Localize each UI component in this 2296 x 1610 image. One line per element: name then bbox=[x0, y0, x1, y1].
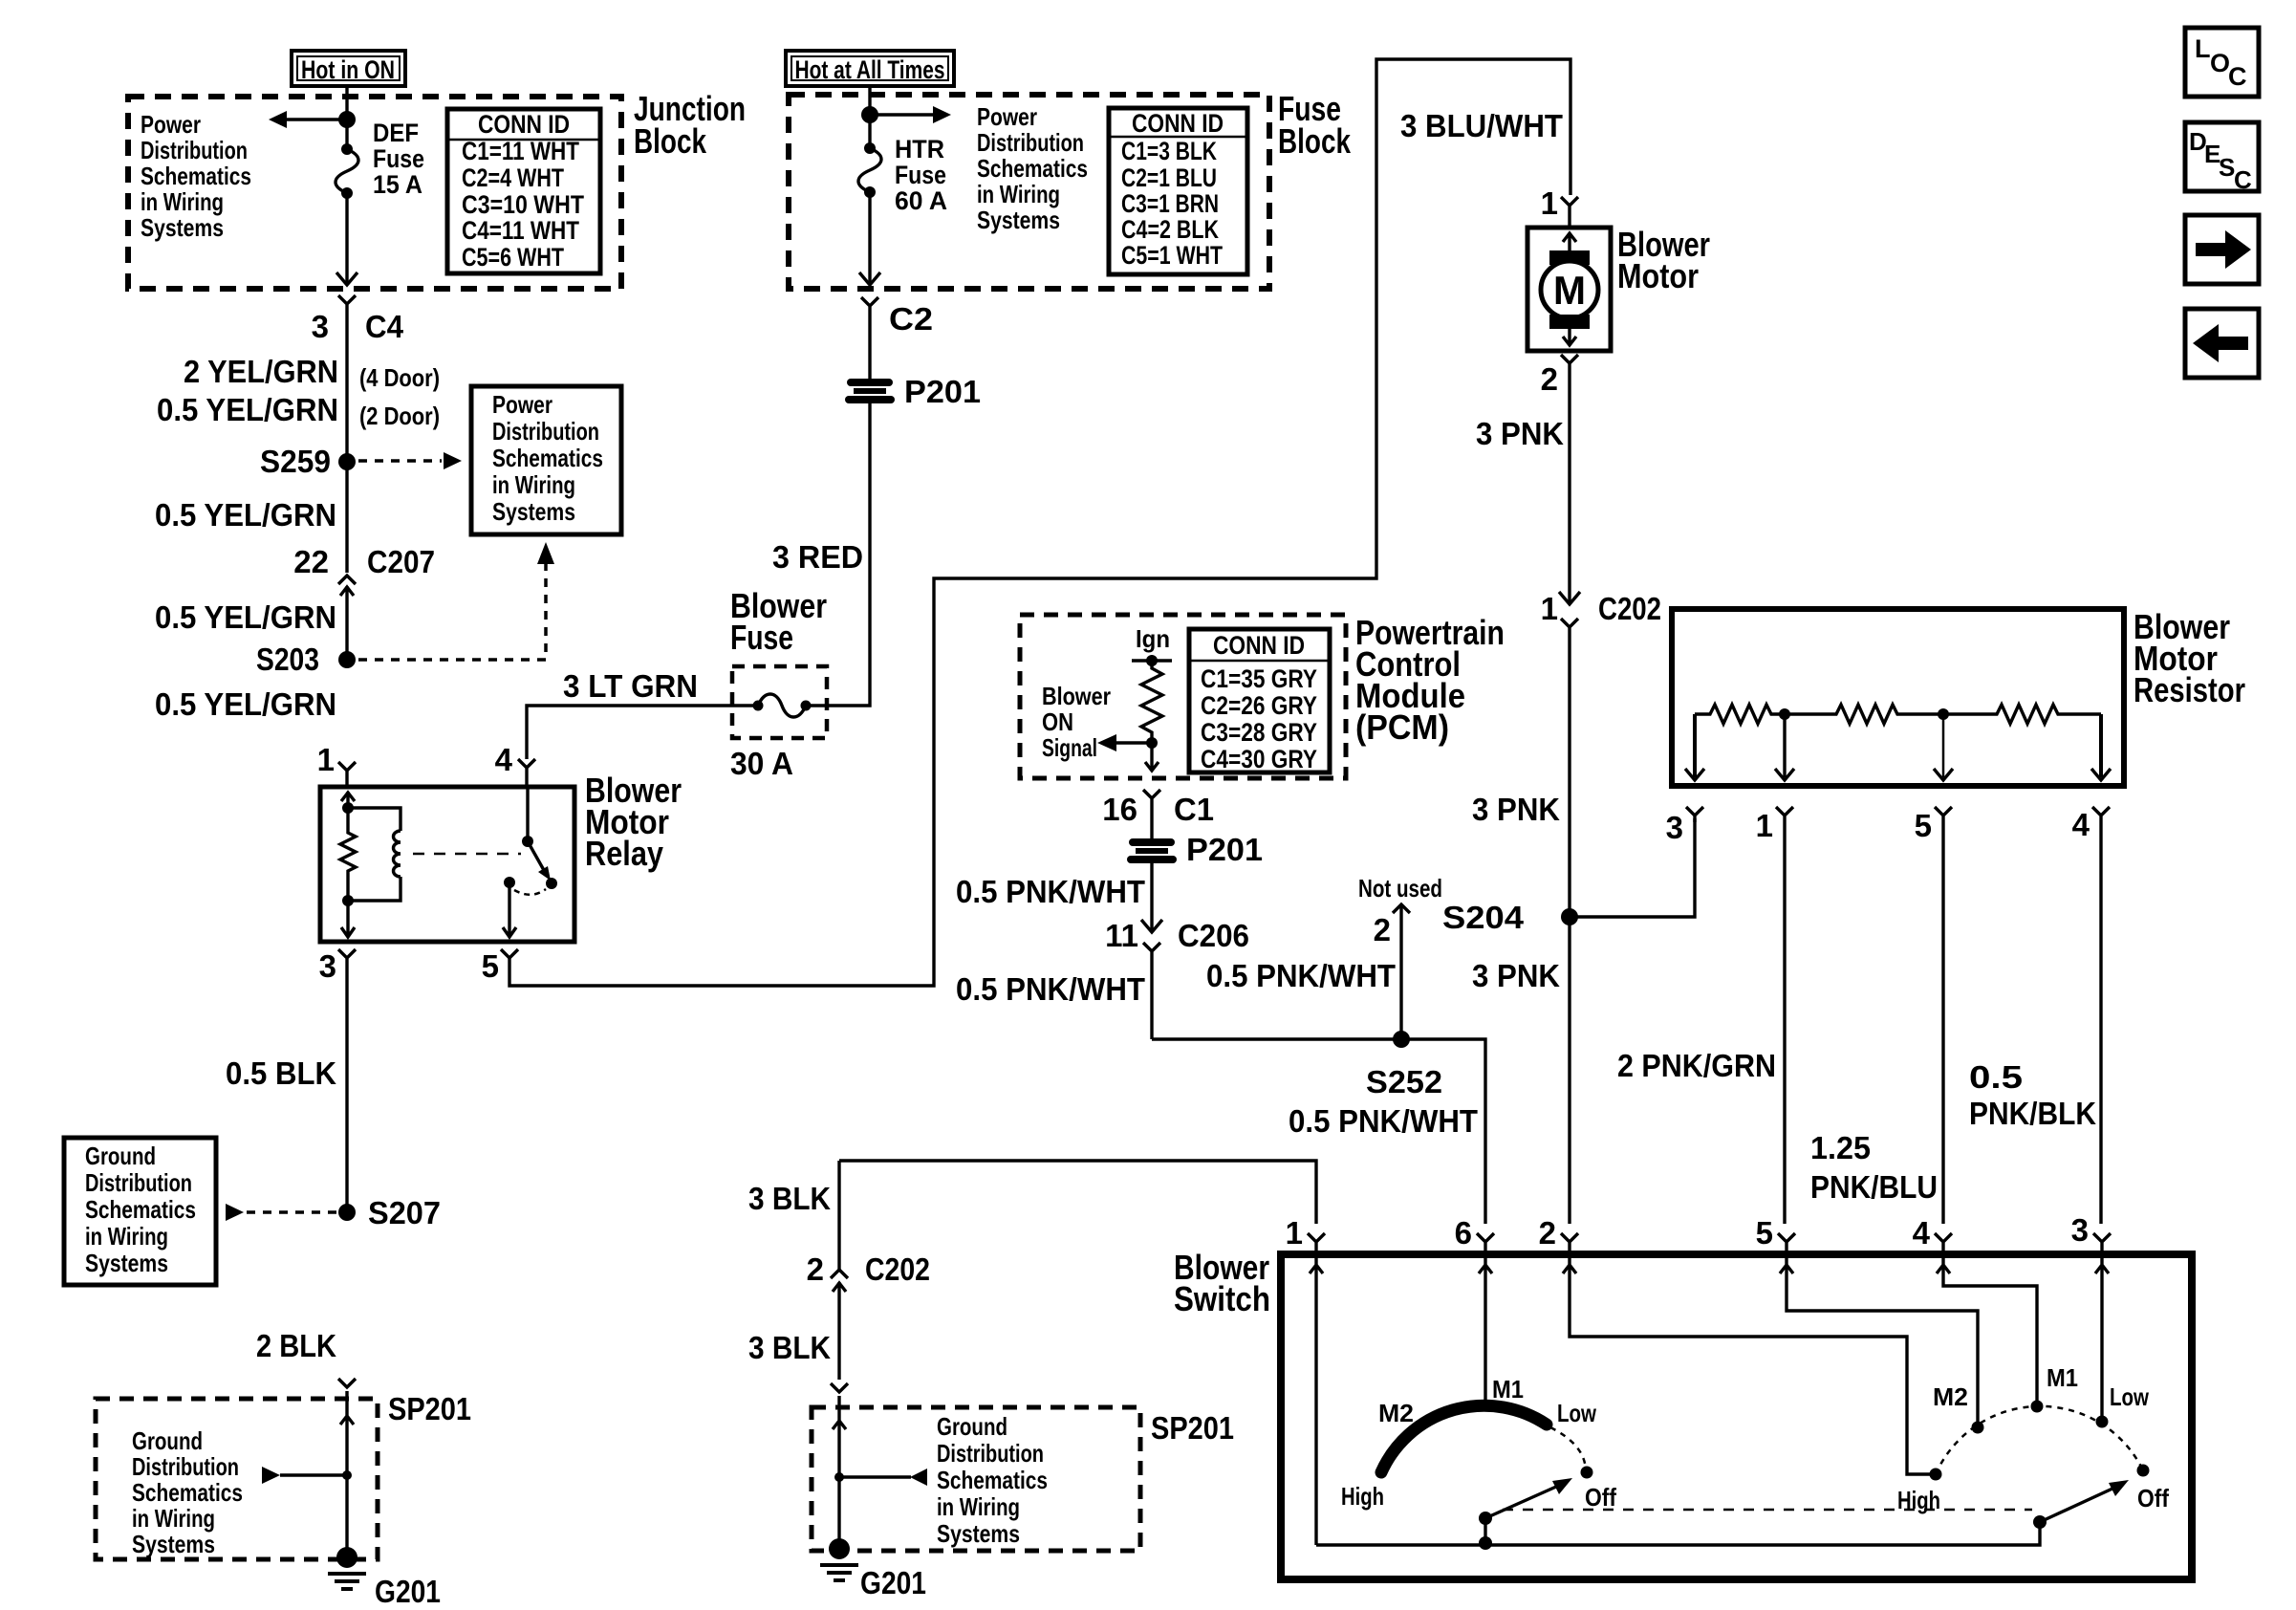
node junction block tap bbox=[338, 111, 356, 128]
inductor relay coil bbox=[348, 808, 401, 901]
wire tap arrow to power distribution note bbox=[269, 111, 339, 128]
wire relay pin 5 internal with arrow bbox=[503, 882, 516, 937]
svg-text:3: 3 bbox=[2071, 1212, 2089, 1248]
connector C4 pin 3 bbox=[312, 295, 404, 462]
resistor R3 pin5-pin4 bbox=[1943, 705, 2101, 724]
wire blower fuse to 3 RED riser bbox=[806, 401, 870, 706]
label 3 PNK S204 to switch bbox=[1472, 958, 1560, 993]
svg-text:0.5 BLK: 0.5 BLK bbox=[226, 1055, 336, 1091]
label 3 PNK C202 to S204 bbox=[1472, 792, 1560, 827]
CONN ID table (fuse block) bbox=[1109, 108, 1247, 274]
svg-text:S252: S252 bbox=[1366, 1064, 1442, 1099]
svg-text:Ground: Ground bbox=[937, 1412, 1007, 1441]
svg-text:Power: Power bbox=[141, 110, 201, 139]
svg-text:C: C bbox=[2234, 165, 2252, 194]
svg-text:M2: M2 bbox=[1378, 1399, 1414, 1427]
svg-text:Distribution: Distribution bbox=[937, 1439, 1044, 1468]
svg-text:4: 4 bbox=[2072, 807, 2090, 842]
resistor pack Blower Motor Resistor box bbox=[1672, 609, 2124, 786]
svg-text:5: 5 bbox=[1915, 808, 1932, 843]
label 0.5 PNK/WHT middle run bbox=[1206, 958, 1396, 993]
svg-text:Ign: Ign bbox=[1136, 624, 1170, 653]
node S204 bbox=[1442, 900, 1578, 935]
node S207 bbox=[338, 1195, 441, 1230]
resistor PCM blower-on pull-up bbox=[1141, 661, 1162, 743]
svg-text:0.5 PNK/WHT: 0.5 PNK/WHT bbox=[1206, 958, 1396, 993]
svg-text:Systems: Systems bbox=[132, 1530, 215, 1558]
svg-text:3: 3 bbox=[319, 948, 336, 984]
node fuse block tap bbox=[861, 106, 878, 123]
svg-text:Systems: Systems bbox=[85, 1249, 168, 1277]
wire switch common bottom rail bbox=[1316, 1522, 2040, 1545]
connector Not used pin 2 bbox=[1358, 874, 1442, 1039]
node resistor junction pin1 bbox=[1779, 708, 1790, 720]
svg-text:11: 11 bbox=[1105, 918, 1138, 953]
node S203 bbox=[256, 642, 356, 677]
svg-text:PNK/BLU: PNK/BLU bbox=[1810, 1169, 1938, 1205]
node right wafer High contact bbox=[1930, 1469, 1942, 1481]
splice P201 grommet (0.5 PNK/WHT) bbox=[1127, 832, 1263, 867]
module PCM dashed box bbox=[1020, 615, 1346, 778]
label Blower Switch bbox=[1174, 1248, 1270, 1318]
label 3 BLU/WHT bbox=[1400, 108, 1563, 143]
node S252 bbox=[1366, 1031, 1442, 1099]
label M1 left wafer bbox=[1492, 1375, 1524, 1403]
label 2 YEL/GRN (4 Door) bbox=[184, 354, 440, 392]
svg-text:Motor: Motor bbox=[1617, 256, 1699, 295]
svg-text:1: 1 bbox=[1286, 1215, 1303, 1251]
label Blower Motor Relay bbox=[585, 771, 682, 873]
wire 3 LT GRN relay pin4 to blower fuse bbox=[527, 706, 758, 759]
wire PCM output with arrow bbox=[1145, 743, 1159, 771]
svg-text:Power: Power bbox=[492, 390, 552, 419]
wire into SP201 middle with arrow bbox=[833, 1396, 846, 1549]
svg-text:Signal: Signal bbox=[1042, 733, 1097, 762]
wire SP201 left tap arrow bbox=[262, 1467, 352, 1484]
svg-text:C1: C1 bbox=[1174, 792, 1214, 827]
svg-text:1: 1 bbox=[317, 742, 335, 777]
svg-text:Low: Low bbox=[1557, 1399, 1597, 1427]
connector switch pin 4 bbox=[1913, 1215, 1952, 1254]
svg-text:2 YEL/GRN: 2 YEL/GRN bbox=[184, 354, 338, 389]
node right wafer M1 contact bbox=[2031, 1401, 2044, 1413]
svg-text:30 A: 30 A bbox=[730, 746, 793, 781]
label 0.5 PNK/WHT C1 to C206 bbox=[956, 874, 1145, 909]
connector SP201 splice pack middle bbox=[831, 1383, 1234, 1446]
svg-text:Distribution: Distribution bbox=[492, 417, 599, 446]
svg-text:Blower: Blower bbox=[1042, 682, 1111, 710]
svg-text:M1: M1 bbox=[1492, 1375, 1524, 1403]
svg-text:C3=10 WHT: C3=10 WHT bbox=[462, 190, 584, 219]
svg-text:3: 3 bbox=[1666, 810, 1683, 845]
wire dashed S207 link with arrow bbox=[226, 1204, 336, 1221]
connector blower motor pin 1 bbox=[1541, 185, 1578, 226]
motor symbol M with brushes bbox=[1541, 233, 1598, 345]
svg-text:C206: C206 bbox=[1178, 918, 1249, 953]
svg-text:0.5 YEL/GRN: 0.5 YEL/GRN bbox=[157, 392, 338, 427]
label 0.5 PNK/WHT below C206 bbox=[956, 971, 1145, 1007]
svg-text:S204: S204 bbox=[1442, 900, 1525, 935]
svg-text:S259: S259 bbox=[260, 444, 331, 479]
switch relay movable blade with arrow bbox=[528, 841, 557, 889]
svg-text:in Wiring: in Wiring bbox=[132, 1504, 215, 1533]
wire switch pin 6 internal to left wafer wiper bbox=[1479, 1258, 1492, 1402]
svg-text:1: 1 bbox=[1541, 185, 1558, 221]
node resistor junction pin5 bbox=[1938, 708, 1949, 720]
label 0.5 PNK/BLK bbox=[1969, 1059, 2096, 1131]
label High left wafer bbox=[1341, 1482, 1384, 1511]
svg-text:in Wiring: in Wiring bbox=[977, 180, 1060, 208]
svg-text:C3=1 BRN: C3=1 BRN bbox=[1121, 189, 1219, 218]
connector switch pin 2 bbox=[1539, 1215, 1578, 1254]
label M1 right wafer bbox=[2047, 1363, 2078, 1392]
svg-text:S207: S207 bbox=[368, 1195, 441, 1230]
svg-text:Switch: Switch bbox=[1174, 1279, 1270, 1318]
note Ground Distribution Schematics (SP201 left) bbox=[132, 1426, 243, 1558]
svg-text:3 PNK: 3 PNK bbox=[1472, 792, 1560, 827]
connector switch pin 6 bbox=[1455, 1215, 1494, 1254]
svg-text:2 BLK: 2 BLK bbox=[256, 1328, 336, 1363]
svg-text:CONN ID: CONN ID bbox=[478, 110, 570, 139]
node relay coil bottom with arrow to pin 3 bbox=[341, 895, 355, 937]
wire S204 to switch pin 2 bbox=[1568, 917, 1570, 1224]
label Blower Fuse bbox=[730, 586, 827, 657]
splice P201 grommet (3 RED) bbox=[845, 374, 981, 409]
svg-text:G201: G201 bbox=[375, 1574, 441, 1609]
node right wafer Low contact bbox=[2096, 1416, 2109, 1428]
svg-text:3 BLK: 3 BLK bbox=[748, 1330, 831, 1365]
svg-text:3: 3 bbox=[312, 309, 329, 344]
node S259 bbox=[260, 444, 356, 479]
svg-text:in Wiring: in Wiring bbox=[937, 1492, 1020, 1521]
connector C207 pin 22 bbox=[293, 544, 435, 660]
svg-text:Schematics: Schematics bbox=[141, 162, 251, 190]
node right wafer M2 contact bbox=[1972, 1422, 1984, 1434]
label 3 RED bbox=[772, 539, 863, 575]
label 1.25 PNK/BLU bbox=[1810, 1130, 1938, 1205]
svg-text:P201: P201 bbox=[1186, 832, 1263, 867]
label M2 right wafer bbox=[1933, 1382, 1968, 1411]
svg-text:C2=1 BLU: C2=1 BLU bbox=[1121, 163, 1217, 192]
svg-text:Distribution: Distribution bbox=[132, 1452, 239, 1481]
svg-text:Fuse: Fuse bbox=[895, 161, 946, 189]
svg-text:2: 2 bbox=[1539, 1215, 1556, 1251]
icon DESC box bbox=[2185, 122, 2259, 194]
svg-text:Power: Power bbox=[977, 102, 1037, 131]
label 3 BLK upper bbox=[748, 1181, 831, 1216]
svg-text:3 PNK: 3 PNK bbox=[1476, 416, 1564, 451]
svg-text:3 LT GRN: 3 LT GRN bbox=[563, 668, 698, 704]
fuse element Blower Fuse bbox=[753, 694, 812, 717]
svg-text:0.5 PNK/WHT: 0.5 PNK/WHT bbox=[956, 874, 1145, 909]
wire relay pin 4 internal bbox=[526, 787, 529, 841]
fuse Blower Fuse dashed box bbox=[732, 666, 827, 738]
svg-text:C5=6 WHT: C5=6 WHT bbox=[462, 243, 564, 272]
switch blade left wafer bbox=[1479, 1478, 1572, 1525]
wire resistor pin 5 internal drop bbox=[1934, 714, 1953, 780]
svg-text:Low: Low bbox=[2110, 1382, 2150, 1411]
label Blower Motor Resistor bbox=[2134, 607, 2245, 709]
svg-text:1: 1 bbox=[1541, 591, 1558, 626]
label 3 PNK motor to C202 bbox=[1476, 416, 1564, 451]
box Power Distribution Schematics (S259) bbox=[471, 386, 621, 534]
svg-text:P201: P201 bbox=[904, 374, 981, 409]
svg-text:C3=28 GRY: C3=28 GRY bbox=[1201, 718, 1317, 747]
connector relay pin 1 bbox=[317, 742, 356, 785]
svg-text:HTR: HTR bbox=[895, 135, 944, 163]
svg-text:Schematics: Schematics bbox=[492, 444, 603, 472]
svg-text:(2 Door): (2 Door) bbox=[359, 402, 440, 430]
wire resistor pin 4 internal drop bbox=[2091, 714, 2111, 780]
svg-text:in Wiring: in Wiring bbox=[85, 1222, 168, 1251]
svg-text:C202: C202 bbox=[1598, 591, 1661, 626]
wire from Hot in ON into junction block bbox=[345, 86, 348, 149]
connector C202 pin 1 bbox=[1541, 591, 1661, 917]
svg-text:5: 5 bbox=[482, 948, 499, 984]
svg-text:2 PNK/GRN: 2 PNK/GRN bbox=[1617, 1048, 1776, 1083]
svg-text:0.5 PNK/WHT: 0.5 PNK/WHT bbox=[956, 971, 1145, 1007]
junction block dashed box bbox=[128, 97, 621, 289]
connector switch pin 1 bbox=[1286, 1215, 1325, 1254]
svg-text:2: 2 bbox=[807, 1251, 824, 1287]
node blower on signal junction bbox=[1146, 737, 1158, 749]
node relay common contact bbox=[522, 836, 533, 847]
svg-text:Resistor: Resistor bbox=[2134, 670, 2245, 709]
svg-text:1: 1 bbox=[1756, 808, 1773, 843]
svg-text:Schematics: Schematics bbox=[132, 1478, 243, 1507]
wire tap arrow to power distribution note (fuse block) bbox=[877, 106, 951, 123]
node Ign feed inside PCM bbox=[1132, 624, 1172, 666]
svg-text:C1=3 BLK: C1=3 BLK bbox=[1121, 137, 1217, 165]
wire 3 BLK riser to ground rail bbox=[837, 1161, 840, 1272]
svg-text:S: S bbox=[2219, 153, 2235, 182]
left wafer dashed arc to Off bbox=[1550, 1427, 1586, 1470]
svg-text:15 A: 15 A bbox=[373, 170, 422, 199]
connector relay pin 4 external bbox=[495, 742, 535, 785]
label 0.5 BLK bbox=[226, 1055, 336, 1091]
wire relay pin5 to blower motor feed 3 BLU/WHT bbox=[509, 59, 1570, 986]
label 2 BLK bbox=[256, 1328, 336, 1363]
label 0.5 YEL/GRN below S203 bbox=[155, 686, 336, 722]
label 0.5 YEL/GRN below S259 bbox=[155, 497, 336, 533]
relay Blower Motor Relay box bbox=[320, 787, 574, 942]
fuse block dashed box bbox=[789, 95, 1269, 289]
wire S259 to C207 bbox=[345, 462, 348, 573]
note Power Distribution Schematics (fuse block) bbox=[977, 102, 1088, 234]
wire dashed relay actuation link bbox=[413, 853, 521, 856]
resistor R2 pin1-pin5 bbox=[1785, 705, 1943, 724]
label 3 BLK lower bbox=[748, 1330, 831, 1365]
wire Hot at All Times into fuse block bbox=[868, 86, 871, 148]
svg-text:C202: C202 bbox=[865, 1251, 930, 1287]
svg-text:1.25: 1.25 bbox=[1810, 1130, 1871, 1165]
icon next arrow box bbox=[2185, 215, 2259, 284]
svg-text:16: 16 bbox=[1102, 792, 1137, 827]
ground G201 left bbox=[328, 1547, 441, 1609]
svg-text:Block: Block bbox=[634, 121, 707, 161]
wire SP201 middle tap arrow bbox=[834, 1469, 927, 1486]
wire resistor pin 1 internal drop bbox=[1775, 714, 1794, 780]
svg-text:C1=11 WHT: C1=11 WHT bbox=[462, 137, 579, 165]
connector SP201 splice pack left bbox=[338, 1379, 471, 1426]
wire relay pin 1 internal with arrow bbox=[341, 792, 355, 814]
connector resistor pin 3 bbox=[1666, 807, 1703, 845]
wire DEF fuse output with arrow bbox=[336, 193, 357, 285]
svg-text:0.5 PNK/WHT: 0.5 PNK/WHT bbox=[1289, 1103, 1478, 1139]
svg-text:O: O bbox=[2210, 49, 2230, 77]
label Low left wafer bbox=[1557, 1399, 1597, 1427]
svg-text:3 BLK: 3 BLK bbox=[748, 1181, 831, 1216]
svg-text:2: 2 bbox=[1541, 361, 1558, 397]
label 2 PNK/GRN bbox=[1617, 1048, 1776, 1083]
label Junction Block bbox=[634, 89, 746, 161]
label 0.5 PNK/WHT to switch pin 6 bbox=[1289, 1103, 1478, 1139]
label Low right wafer bbox=[2110, 1382, 2150, 1411]
node left wafer Off contact bbox=[1581, 1467, 1593, 1479]
label 30 A bbox=[730, 746, 793, 781]
svg-text:0.5 YEL/GRN: 0.5 YEL/GRN bbox=[155, 686, 336, 722]
ground G201 middle bbox=[820, 1538, 926, 1600]
wire dashed S259 to power distribution box bbox=[358, 452, 462, 469]
svg-text:Hot at All Times: Hot at All Times bbox=[795, 55, 945, 84]
svg-text:C4: C4 bbox=[365, 309, 404, 344]
svg-text:C4=30 GRY: C4=30 GRY bbox=[1201, 745, 1317, 773]
svg-text:6: 6 bbox=[1455, 1215, 1472, 1251]
wire left blade pivot stub bbox=[1479, 1518, 1492, 1550]
wire Blower ON Signal arrow bbox=[1097, 734, 1152, 751]
svg-text:Distribution: Distribution bbox=[977, 128, 1084, 157]
svg-text:in Wiring: in Wiring bbox=[141, 187, 224, 216]
svg-text:G201: G201 bbox=[860, 1565, 926, 1600]
icon previous arrow box bbox=[2185, 309, 2259, 378]
svg-text:M2: M2 bbox=[1933, 1382, 1968, 1411]
svg-text:60 A: 60 A bbox=[895, 186, 947, 215]
resistor R1 pin3-pin1 bbox=[1695, 705, 1785, 724]
wire C206 to S252 to switch pin 6 bbox=[1152, 1039, 1485, 1224]
wire dashed S203 up to power distribution box bbox=[358, 542, 554, 660]
svg-text:0.5: 0.5 bbox=[1969, 1059, 2023, 1095]
node relay NO contact bbox=[504, 877, 515, 888]
svg-text:SP201: SP201 bbox=[388, 1391, 471, 1426]
note Power Distribution Schematics (junction block) bbox=[141, 110, 251, 242]
svg-text:4: 4 bbox=[495, 742, 513, 777]
wire dashed gang linkage bbox=[1503, 1509, 2032, 1512]
wire ground rail to switch pin 1 bbox=[839, 1161, 1316, 1224]
svg-text:Systems: Systems bbox=[977, 206, 1060, 234]
svg-text:Hot in ON: Hot in ON bbox=[301, 55, 395, 84]
icon LOC box bbox=[2185, 28, 2259, 97]
label Blower ON Signal bbox=[1042, 682, 1111, 762]
svg-text:Distribution: Distribution bbox=[141, 136, 248, 164]
svg-text:3 PNK: 3 PNK bbox=[1472, 958, 1560, 993]
right wafer dashed contact arc bbox=[1936, 1406, 2143, 1474]
tag Hot at All Times bbox=[786, 51, 954, 86]
splice pack SP201 dashed box left bbox=[96, 1399, 378, 1559]
svg-text:5: 5 bbox=[1756, 1215, 1773, 1251]
connector resistor pin 5 bbox=[1915, 807, 1952, 1224]
svg-text:Fuse: Fuse bbox=[373, 144, 424, 173]
svg-text:C2=4 WHT: C2=4 WHT bbox=[462, 163, 564, 192]
tag Hot in ON bbox=[292, 51, 405, 86]
svg-text:PNK/BLK: PNK/BLK bbox=[1969, 1096, 2096, 1131]
label Blower Motor bbox=[1617, 225, 1710, 295]
wire switch pin 1 internal to common rail bbox=[1310, 1258, 1323, 1545]
svg-text:Fuse: Fuse bbox=[730, 618, 793, 657]
label High right wafer bbox=[1897, 1486, 1940, 1514]
connector resistor pin 4 bbox=[2072, 807, 2110, 1224]
svg-text:2: 2 bbox=[1374, 912, 1391, 947]
svg-text:Distribution: Distribution bbox=[85, 1168, 192, 1197]
node right wafer Off contact bbox=[2137, 1465, 2150, 1477]
svg-text:C2: C2 bbox=[889, 301, 933, 337]
note Ground Distribution Schematics (SP201 middle) bbox=[937, 1412, 1048, 1548]
svg-text:SP201: SP201 bbox=[1151, 1410, 1234, 1446]
svg-text:in Wiring: in Wiring bbox=[492, 470, 575, 499]
svg-text:C2=26 GRY: C2=26 GRY bbox=[1201, 691, 1317, 720]
svg-text:C: C bbox=[2228, 62, 2247, 91]
wire switch pin 3 internal to right wafer Low bbox=[2095, 1258, 2109, 1417]
svg-text:0.5 YEL/GRN: 0.5 YEL/GRN bbox=[155, 599, 336, 635]
svg-text:Not used: Not used bbox=[1358, 874, 1442, 903]
splice pack SP201 dashed box middle bbox=[812, 1407, 1140, 1551]
connector C206 pin 11 bbox=[1105, 863, 1249, 1039]
svg-text:Systems: Systems bbox=[937, 1519, 1020, 1548]
svg-text:S203: S203 bbox=[256, 642, 319, 677]
connector switch pin 3 bbox=[2071, 1212, 2111, 1254]
switch Blower Switch box bbox=[1281, 1254, 2192, 1579]
switch blade right wafer bbox=[2033, 1480, 2129, 1529]
fuse HTR Fuse 60 A bbox=[858, 135, 947, 215]
connector C1 pin 16 bbox=[1102, 790, 1214, 838]
svg-text:3 RED: 3 RED bbox=[772, 539, 863, 575]
wire dashed relay contact arc bbox=[514, 889, 546, 895]
svg-text:Ground: Ground bbox=[132, 1426, 203, 1455]
svg-text:(4 Door): (4 Door) bbox=[359, 363, 440, 392]
label Powertrain Control Module (PCM) bbox=[1355, 613, 1505, 747]
svg-text:High: High bbox=[1897, 1486, 1940, 1514]
svg-text:22: 22 bbox=[293, 544, 329, 579]
wire switch pin 5 internal to right wafer M2 bbox=[1780, 1258, 1978, 1423]
svg-text:High: High bbox=[1341, 1482, 1384, 1511]
svg-text:Systems: Systems bbox=[492, 497, 575, 526]
svg-text:Relay: Relay bbox=[585, 834, 663, 873]
svg-text:CONN ID: CONN ID bbox=[1132, 109, 1224, 138]
left wafer wiper track thick arc bbox=[1381, 1405, 1547, 1472]
wire into SP201 left with arrow bbox=[340, 1391, 354, 1557]
fuse DEF Fuse 15 A bbox=[336, 119, 424, 199]
label Fuse Block bbox=[1278, 89, 1352, 161]
svg-text:0.5 YEL/GRN: 0.5 YEL/GRN bbox=[155, 497, 336, 533]
svg-text:C1=35 GRY: C1=35 GRY bbox=[1201, 664, 1317, 693]
wire switch pin 4 internal to right wafer M1 bbox=[1937, 1258, 2037, 1402]
svg-text:Off: Off bbox=[1585, 1483, 1616, 1512]
svg-text:ON: ON bbox=[1042, 707, 1073, 736]
svg-text:Systems: Systems bbox=[141, 213, 224, 242]
svg-text:Block: Block bbox=[1278, 121, 1352, 161]
svg-text:M: M bbox=[1553, 268, 1586, 313]
connector relay pin 5 bbox=[482, 948, 518, 984]
svg-text:C5=1 WHT: C5=1 WHT bbox=[1121, 241, 1223, 270]
svg-text:Schematics: Schematics bbox=[85, 1195, 196, 1224]
svg-text:Schematics: Schematics bbox=[937, 1466, 1048, 1494]
label 3 LT GRN bbox=[563, 668, 698, 704]
svg-text:C207: C207 bbox=[367, 544, 435, 579]
resistor relay coil shunt bbox=[340, 808, 356, 901]
svg-text:C4=2 BLK: C4=2 BLK bbox=[1121, 215, 1219, 244]
svg-text:Off: Off bbox=[2137, 1484, 2169, 1512]
wire S204 to resistor pin 3 bbox=[1570, 818, 1695, 917]
svg-text:4: 4 bbox=[1913, 1215, 1931, 1251]
